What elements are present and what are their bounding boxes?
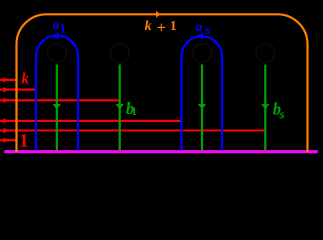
- svg-text:a: a: [196, 19, 203, 34]
- label as (blue): [196, 19, 211, 37]
- red strand 1 (line 6, ends at orange loop): [0, 138, 17, 143]
- red strand (line 2, ends at arc a1 left leg): [0, 87, 37, 92]
- svg-text:k: k: [145, 19, 152, 34]
- orange arrowhead: [156, 11, 160, 18]
- dark circle 2: [110, 44, 129, 63]
- dark circle 4: [256, 44, 275, 63]
- green strand bs: [261, 65, 269, 151]
- svg-text:s: s: [204, 23, 210, 37]
- svg-text:+: +: [157, 19, 166, 36]
- green strand 3 (under arc as): [198, 65, 206, 151]
- dark circle 1: [47, 44, 66, 63]
- orange loop k+1: [16, 14, 307, 152]
- svg-text:1: 1: [131, 106, 137, 118]
- svg-text:s: s: [279, 108, 285, 122]
- label b1 (green): [126, 99, 137, 118]
- svg-text:1: 1: [60, 21, 66, 35]
- svg-text:1: 1: [19, 131, 28, 151]
- svg-text:k: k: [21, 70, 29, 87]
- blue arc as: [182, 36, 223, 150]
- green strand b1: [116, 65, 124, 151]
- label k+1 (orange): [145, 18, 177, 36]
- green strand 1 (under arc a1): [53, 65, 61, 151]
- red strand (line 5, ends at strand bs): [0, 128, 266, 133]
- red strand (line 4, ends at arc as left leg): [0, 118, 182, 123]
- blue arrowhead a1: [52, 32, 59, 39]
- label a1 (blue): [53, 17, 66, 35]
- blue arc a1: [36, 36, 78, 151]
- red strand (line 3, ends at strand b1): [0, 98, 120, 103]
- svg-text:1: 1: [170, 18, 177, 33]
- red strand k (line 1, ends at orange loop): [0, 77, 17, 82]
- svg-text:a: a: [53, 17, 60, 32]
- label bs (green): [273, 100, 285, 122]
- blue arrowhead as: [196, 32, 203, 39]
- magenta boundary line: [4, 150, 317, 153]
- dark circle 3: [193, 44, 212, 63]
